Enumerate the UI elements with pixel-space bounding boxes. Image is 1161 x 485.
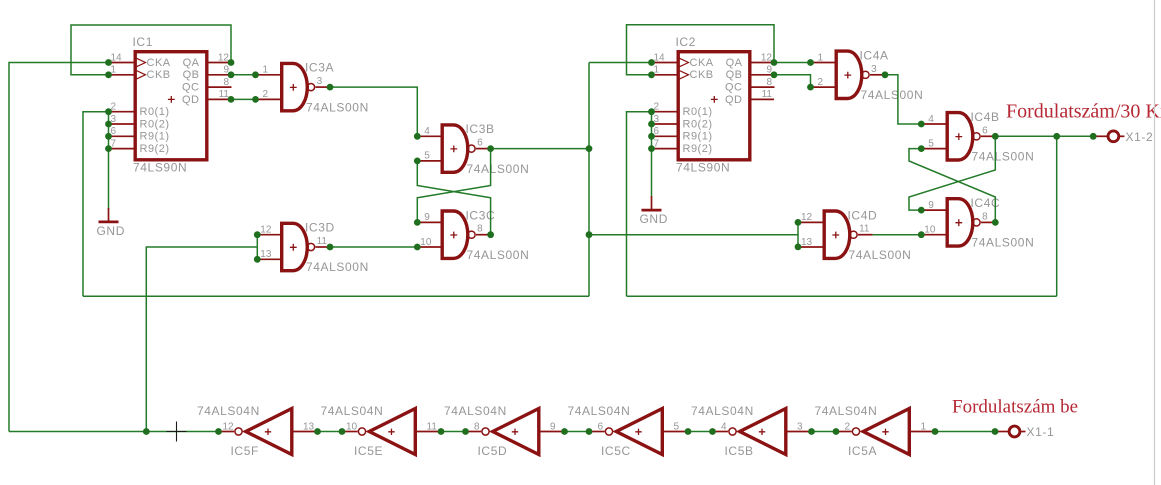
svg-text:IC4D: IC4D (848, 208, 878, 222)
ground symbol GND of IC1 (108, 208, 110, 221)
sheet frame border line (1154, 0, 1156, 485)
IC2 CKB clock wedge (679, 71, 688, 80)
IC2 R0(1) node (648, 108, 655, 115)
svg-text:14: 14 (111, 52, 123, 63)
IC5A input node (932, 428, 939, 435)
svg-text:9: 9 (928, 200, 934, 211)
wire branch up to IC4B output net (1056, 136, 1058, 296)
svg-text:5: 5 (424, 151, 430, 162)
IC3D pin12 node (254, 231, 261, 238)
svg-text:R0(2): R0(2) (140, 118, 170, 130)
wire IC1 QD to IC3A pin 2 (231, 98, 256, 100)
svg-text:IC3B: IC3B (466, 122, 495, 136)
svg-text:74LS90N: 74LS90N (133, 161, 187, 175)
IC4C output pin lead (981, 221, 995, 223)
junction IC3B-out / IC2 CKA (586, 145, 593, 152)
IC4A plus mark (844, 72, 851, 79)
NAND gate IC4A 74ALS00N body (836, 51, 862, 98)
svg-text:QB: QB (183, 69, 200, 81)
IC1 R9(2) node (105, 145, 112, 152)
svg-text:74ALS00N: 74ALS00N (306, 100, 369, 114)
svg-text:8: 8 (223, 77, 229, 88)
svg-text:R0(1): R0(1) (140, 106, 170, 118)
svg-text:12: 12 (260, 225, 272, 236)
IC4C output node (992, 219, 999, 226)
IC3C output bubble (468, 231, 475, 238)
svg-text:4: 4 (721, 421, 727, 432)
IC5E input node (438, 428, 445, 435)
NAND gate IC3A 74ALS00N body (282, 63, 308, 110)
NAND gate IC4D 74ALS00N body (824, 211, 850, 258)
pad X1-1 pin lead (995, 431, 1008, 433)
IC1 R9(1) node (105, 133, 112, 140)
svg-text:5: 5 (674, 421, 680, 432)
IC1 CKB pin node (105, 71, 112, 78)
IC2 QA pin node (771, 59, 778, 66)
wire IC1 QA feedback loop to CKB (71, 25, 231, 75)
pad X1-2 pin lead (1093, 135, 1107, 137)
IC5A input pin lead (911, 431, 935, 433)
inverter IC5A 74ALS04N body triangle (863, 409, 909, 455)
IC1 QC stub pin 8 (207, 86, 232, 88)
svg-text:X1-2: X1-2 (1126, 130, 1154, 144)
connector pad X1-1 (1009, 426, 1020, 437)
svg-text:CKB: CKB (147, 69, 171, 81)
IC2 CKA clock wedge (679, 58, 688, 67)
wire IC5E in to IC5D out (441, 431, 466, 433)
svg-text:74ALS00N: 74ALS00N (467, 162, 530, 176)
IC4D input pin leads (798, 221, 824, 223)
wire latch IC3B pin5 to IC3C output (417, 161, 490, 235)
IC1 right pin leads (207, 62, 231, 64)
svg-text:74ALS04N: 74ALS04N (691, 404, 754, 418)
wire latch IC4B output to IC4C pin9 (909, 136, 995, 210)
svg-text:2: 2 (845, 421, 851, 432)
svg-text:QC: QC (725, 82, 743, 94)
IC3A pin1 node (252, 71, 259, 78)
wire long net y296 right from IC2 R0 to IC4B-out branch (627, 295, 1057, 297)
svg-text:R9(1): R9(1) (140, 131, 170, 143)
IC4D pin13 node (795, 244, 802, 251)
IC4B plus mark (955, 133, 962, 140)
IC5F output node (215, 428, 222, 435)
junction IC3B-out / IC4D feed (586, 231, 593, 238)
IC2 CKA pin node (648, 59, 655, 66)
svg-text:Fordulatszám/30 Ki: Fordulatszám/30 Ki (1006, 101, 1161, 123)
svg-text:74ALS00N: 74ALS00N (861, 88, 924, 102)
svg-text:CKA: CKA (147, 57, 171, 69)
svg-text:74ALS04N: 74ALS04N (197, 404, 260, 418)
IC4B pin5 node (918, 145, 925, 152)
IC5E output node (339, 428, 346, 435)
IC1 QB pin node (228, 71, 235, 78)
IC1 CKA pin node (105, 59, 112, 66)
wire IC5B in to IC5A out (812, 431, 837, 433)
IC2 QB pin node (771, 71, 778, 78)
svg-text:74ALS04N: 74ALS04N (444, 404, 507, 418)
IC5E plus mark (388, 429, 394, 435)
svg-text:QD: QD (182, 94, 200, 106)
IC5D input pin lead (541, 431, 565, 433)
IC5E output pin lead (342, 431, 358, 433)
IC5D output bubble (482, 428, 489, 435)
IC3A output pin lead (316, 86, 331, 88)
IC4C input pin leads (921, 209, 947, 211)
IC3B input pin leads (417, 135, 442, 137)
IC1 R0(1) node (105, 108, 112, 115)
IC4B output bubble (973, 133, 980, 140)
wire into IC2 CKA (589, 62, 652, 64)
svg-text:10: 10 (346, 421, 358, 432)
IC3B output bubble (468, 145, 475, 152)
IC4D pin12 node (795, 219, 802, 226)
counter IC2 74LS90N body (678, 52, 750, 160)
svg-text:11: 11 (859, 224, 870, 235)
svg-text:6: 6 (477, 138, 483, 149)
junction bottom chain / IC3D feed (143, 428, 150, 435)
IC2 CKB pin node (648, 71, 655, 78)
svg-text:13: 13 (260, 249, 272, 260)
svg-text:IC3A: IC3A (305, 61, 334, 75)
wire IC2 QA to IC4A pin 1 (774, 62, 811, 64)
IC5A output node (833, 428, 840, 435)
IC4A output pin lead (870, 74, 885, 76)
IC3D output bubble (307, 243, 314, 250)
wire latch IC4B pin5 to IC4C output (909, 149, 995, 223)
wire feed from bottom chain to IC3D inputs (146, 247, 257, 432)
svg-text:1: 1 (818, 52, 824, 63)
IC5B output node (709, 428, 716, 435)
svg-text:12: 12 (801, 212, 813, 223)
wire bottom chain from x9 to IC5F output (9, 431, 219, 433)
wire IC5C in to IC5B out (688, 431, 713, 433)
svg-text:IC5D: IC5D (478, 444, 508, 458)
IC4A pin2 node (807, 84, 814, 91)
svg-text:74ALS00N: 74ALS00N (972, 150, 1035, 164)
IC3C pin10 node (414, 244, 421, 251)
svg-text:IC5C: IC5C (601, 444, 631, 458)
wire net from IC5F output chain up to IC1 CKA (9, 63, 109, 432)
svg-text:6: 6 (598, 421, 604, 432)
connector pad X1-2 (1108, 131, 1119, 142)
IC1 QA pin node (228, 59, 235, 66)
IC5D output pin lead (466, 431, 482, 433)
IC3D pin13 node (254, 256, 261, 263)
svg-text:2: 2 (263, 89, 269, 100)
wire latch IC3B output to IC3C pin9 (417, 149, 490, 223)
IC1 polarity plus mark (168, 96, 175, 103)
IC5C input node (685, 428, 692, 435)
wire IC2 QA feedback loop to CKB (627, 25, 775, 75)
IC1 left pin leads (109, 62, 136, 64)
wire feed from IC3B-out net to IC4D inputs (589, 234, 798, 236)
IC5A output bubble (852, 428, 859, 435)
svg-text:74ALS00N: 74ALS00N (306, 260, 369, 274)
svg-text:QC: QC (182, 82, 200, 94)
wire IC3D output to IC3C pin 10 (330, 246, 417, 248)
svg-text:Fordulatszám be: Fordulatszám be (952, 396, 1078, 417)
IC5C output pin lead (589, 431, 605, 433)
svg-text:R9(2): R9(2) (140, 143, 170, 155)
svg-text:GND: GND (97, 224, 125, 238)
IC4C output bubble (973, 219, 980, 226)
IC5E input pin lead (417, 431, 441, 433)
IC5C output node (586, 428, 593, 435)
svg-text:IC4B: IC4B (971, 110, 1000, 124)
svg-text:74ALS00N: 74ALS00N (467, 248, 530, 262)
IC4C pin10 node (918, 231, 925, 238)
IC4B input pin leads (921, 123, 947, 125)
junction X1-2 net / y296 branch (1053, 133, 1060, 140)
wire IC2 reset pins bus to GND (651, 112, 653, 197)
svg-text:IC2: IC2 (676, 35, 696, 49)
svg-text:4: 4 (424, 126, 430, 137)
wire IC4D output to IC4C pin 10 (873, 234, 922, 236)
svg-text:QA: QA (183, 57, 200, 69)
IC2 R9(2) node (648, 145, 655, 152)
IC4A output node (882, 71, 889, 78)
wire IC4A output to IC4B pin 4 (885, 75, 921, 124)
wire IC3A output to IC3B pin 4 (330, 87, 417, 136)
IC2 QC stub pin 8 (750, 86, 775, 88)
svg-text:QA: QA (726, 57, 743, 69)
wire IC3B output to IC2 CKA and IC4D (491, 148, 589, 150)
IC5B output bubble (729, 428, 736, 435)
IC5C output bubble (605, 428, 612, 435)
svg-text:8: 8 (474, 421, 480, 432)
IC4C pin9 node (918, 207, 925, 214)
IC5F input pin lead (294, 431, 318, 433)
svg-text:1: 1 (921, 421, 927, 432)
IC5B output pin lead (713, 431, 729, 433)
IC4B pin4 node (918, 121, 925, 128)
NAND gate IC3D 74ALS00N body (282, 223, 308, 270)
wire IC1 QB to IC3A pin 1 (231, 74, 256, 76)
IC4D output pin lead (858, 234, 873, 236)
IC3B pin4 node (414, 133, 421, 140)
svg-text:12: 12 (218, 52, 230, 63)
svg-text:13: 13 (801, 237, 813, 248)
svg-text:11: 11 (317, 236, 328, 247)
svg-text:11: 11 (427, 421, 438, 432)
svg-text:3: 3 (317, 76, 323, 87)
IC5F output pin lead (219, 431, 235, 433)
svg-text:4: 4 (928, 114, 934, 125)
pad X1-2 pin node (1090, 133, 1097, 140)
inverter IC5E 74ALS04N body triangle (369, 409, 415, 455)
black origin cross (167, 422, 187, 442)
IC5F output bubble (235, 428, 242, 435)
svg-text:74ALS00N: 74ALS00N (972, 236, 1035, 250)
inverter IC5F 74ALS04N body triangle (246, 409, 292, 455)
IC5C input pin lead (664, 431, 688, 433)
svg-text:QB: QB (726, 69, 743, 81)
svg-text:R9(1): R9(1) (683, 131, 713, 143)
svg-text:14: 14 (654, 52, 666, 63)
svg-text:3: 3 (871, 64, 877, 75)
IC2 polarity plus mark (711, 96, 718, 103)
svg-text:IC3D: IC3D (305, 221, 335, 235)
IC3D output pin lead (316, 246, 331, 248)
IC5B input node (808, 428, 815, 435)
svg-text:IC1: IC1 (133, 35, 153, 49)
IC4B output pin lead (981, 135, 995, 137)
IC1 CKB clock wedge (136, 71, 145, 80)
NAND gate IC4C 74ALS00N body (947, 199, 973, 246)
IC2 right pin leads (750, 62, 774, 64)
wire IC5D in to IC5C out (565, 431, 590, 433)
svg-text:3: 3 (797, 421, 803, 432)
wire IC4B output to pad X1-2 (995, 135, 1093, 137)
IC4D plus mark (832, 232, 839, 239)
svg-text:R0(1): R0(1) (683, 106, 713, 118)
wire reset feed from long net to IC1 R0(1) (83, 112, 109, 297)
svg-text:5: 5 (928, 138, 934, 149)
NAND gate IC4B 74ALS00N body (947, 113, 973, 160)
wire IC5F in to IC5E out (318, 431, 343, 433)
svg-text:IC5A: IC5A (848, 444, 877, 458)
IC3C input pin leads (417, 221, 442, 223)
IC3A pin2 node (252, 96, 259, 103)
IC3D output node (327, 244, 334, 251)
NAND gate IC3C 74ALS00N body (442, 211, 468, 258)
svg-text:9: 9 (424, 212, 430, 223)
IC3C plus mark (450, 232, 457, 239)
svg-text:CKB: CKB (690, 69, 714, 81)
IC3D input pin leads (257, 234, 281, 236)
IC5C plus mark (635, 429, 641, 435)
svg-text:R0(2): R0(2) (683, 118, 713, 130)
svg-text:GND: GND (640, 212, 668, 226)
svg-text:74ALS04N: 74ALS04N (568, 404, 631, 418)
IC5E output bubble (358, 428, 365, 435)
wire IC5A in to pad X1-1 (935, 431, 995, 433)
ground symbol GND of IC2 (651, 196, 653, 209)
IC5B input pin lead (788, 431, 812, 433)
IC3B plus mark (450, 146, 457, 153)
IC3A plus mark (290, 84, 297, 91)
wire IC1 reset pins bus to GND (108, 112, 110, 209)
svg-text:74ALS00N: 74ALS00N (849, 248, 912, 262)
IC3A output node (327, 84, 334, 91)
svg-text:IC5E: IC5E (354, 444, 383, 458)
svg-text:IC5F: IC5F (231, 444, 259, 458)
IC5B plus mark (759, 429, 765, 435)
IC5D input node (561, 428, 568, 435)
IC1 QD pin node (228, 96, 235, 103)
svg-text:X1-1: X1-1 (1027, 425, 1055, 439)
svg-text:9: 9 (550, 421, 556, 432)
IC5A output pin lead (836, 431, 852, 433)
svg-text:74ALS04N: 74ALS04N (321, 404, 384, 418)
counter IC1 74LS90N body (135, 52, 207, 160)
IC4A pin1 node (807, 59, 814, 66)
svg-text:IC5B: IC5B (725, 444, 754, 458)
svg-text:8: 8 (477, 224, 483, 235)
IC2 left pin leads (652, 62, 679, 64)
IC3A input pin leads (256, 74, 282, 76)
IC4D output bubble (850, 231, 857, 238)
svg-text:12: 12 (223, 421, 235, 432)
IC5F input node (314, 428, 321, 435)
svg-text:10: 10 (420, 237, 432, 248)
IC5F plus mark (265, 429, 271, 435)
wire IC2 QB to IC4A pin 2 (774, 75, 811, 87)
NAND gate IC3B 74ALS00N body (442, 125, 468, 172)
svg-text:12: 12 (761, 52, 773, 63)
IC5A plus mark (882, 429, 888, 435)
svg-text:2: 2 (818, 77, 824, 88)
IC3B pin5 node (414, 158, 421, 165)
svg-text:13: 13 (303, 421, 315, 432)
svg-text:10: 10 (924, 225, 936, 236)
svg-text:11: 11 (762, 89, 773, 100)
wire long net y296 left from IC1 R0 to IC3B-out vertical (83, 295, 589, 297)
pad X1-1 pin node (992, 428, 999, 435)
IC3C pin9 node (414, 219, 421, 226)
IC2 R0(2) node (648, 121, 655, 128)
IC3C output pin lead (476, 234, 491, 236)
wire IC3D input bridge pins 12-13 (256, 235, 258, 260)
IC1 R0(2) node (105, 121, 112, 128)
svg-text:74ALS04N: 74ALS04N (815, 404, 878, 418)
IC4A input pin leads (811, 62, 837, 64)
IC3B output node (487, 145, 494, 152)
IC1 CKA clock wedge (136, 58, 145, 67)
svg-text:CKA: CKA (690, 57, 714, 69)
IC3C output node (487, 231, 494, 238)
IC5D plus mark (512, 429, 518, 435)
IC3A output bubble (307, 84, 314, 91)
wire IC3B-out net down to IC2 CKA and y296 (588, 63, 590, 297)
IC4B output node (992, 133, 999, 140)
wire branch up to IC2 R0(1) (627, 112, 652, 297)
IC5D output node (462, 428, 469, 435)
svg-text:1: 1 (263, 65, 269, 76)
inverter IC5B 74ALS04N body triangle (740, 409, 786, 455)
svg-text:R9(2): R9(2) (683, 143, 713, 155)
IC3B output pin lead (476, 148, 491, 150)
inverter IC5D 74ALS04N body triangle (493, 409, 539, 455)
svg-text:6: 6 (982, 125, 988, 136)
IC2 R9(1) node (648, 133, 655, 140)
svg-text:QD: QD (725, 94, 743, 106)
IC4C plus mark (955, 219, 962, 226)
svg-text:8: 8 (982, 211, 988, 222)
wire IC4D input bridge pins 12-13 (797, 222, 799, 247)
inverter IC5C 74ALS04N body triangle (616, 409, 662, 455)
svg-text:IC4A: IC4A (860, 48, 889, 62)
svg-text:74LS90N: 74LS90N (676, 161, 730, 175)
svg-text:8: 8 (766, 77, 772, 88)
IC3D plus mark (290, 244, 297, 251)
IC4A output bubble (862, 71, 869, 78)
